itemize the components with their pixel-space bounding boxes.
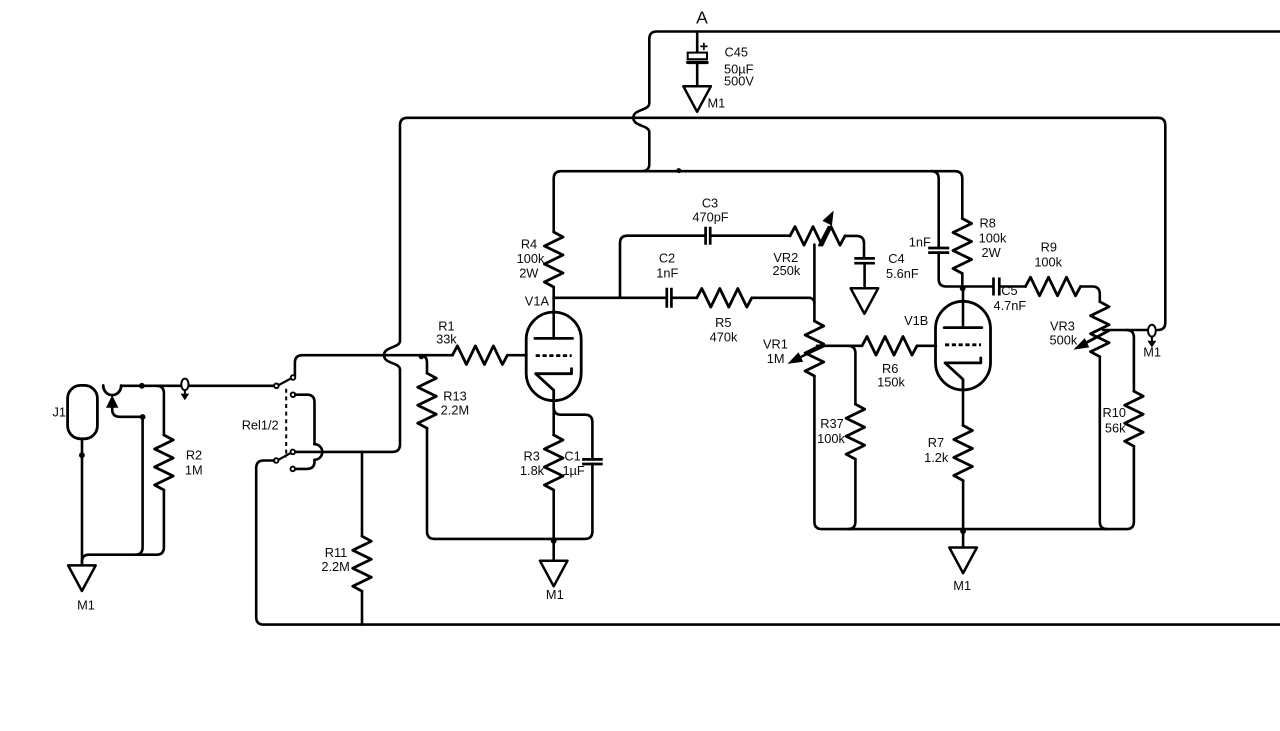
wire local ground bus xyxy=(82,555,156,563)
potentiometer VR3 body xyxy=(1091,302,1110,357)
relay contact pin bottom throw 2 xyxy=(291,467,296,472)
ground M1 under C45 xyxy=(683,86,711,112)
triode V1A grid (dashed) xyxy=(536,354,572,357)
ground M1 under R7 xyxy=(949,548,977,574)
wire V1B cathode to R7 xyxy=(962,390,965,426)
svg-text:R2: R2 xyxy=(186,447,202,462)
wire relay throw2 down xyxy=(295,395,314,445)
wire plate-supply rail (y=171.2) xyxy=(561,171,962,218)
capacitor C3 xyxy=(706,227,711,245)
wire R5 to VR2 wiper node xyxy=(752,298,815,303)
relay contact pin top throw 2 xyxy=(291,392,296,397)
resistor R3 xyxy=(544,435,563,490)
svg-text:R8: R8 xyxy=(980,215,996,230)
svg-text:33k: 33k xyxy=(436,332,457,347)
wire branch down to R37 xyxy=(848,346,855,404)
wire C4 to ground xyxy=(863,263,866,288)
wire relay bottom common to bottom rail xyxy=(256,461,1280,625)
wire VR1 bottom to ground wire xyxy=(814,376,1134,529)
wire drop to relay contact wire xyxy=(296,370,400,452)
junction on plate-supply rail xyxy=(676,168,681,173)
capacitor C45 bottom plate xyxy=(688,61,707,64)
svg-text:100k: 100k xyxy=(979,231,1007,246)
potentiometer VR3 wiper arrow xyxy=(1083,331,1109,345)
wire node A to C45 xyxy=(696,32,699,53)
svg-text:V1B: V1B xyxy=(904,313,928,328)
svg-text:R10: R10 xyxy=(1103,405,1126,420)
svg-text:M1: M1 xyxy=(953,578,971,593)
potentiometer VR2 body xyxy=(790,227,845,246)
svg-text:C2: C2 xyxy=(659,250,675,265)
resistor R2 xyxy=(155,435,174,490)
svg-text:250k: 250k xyxy=(773,263,801,278)
wire hop at relay crossing xyxy=(315,444,323,460)
capacitor C4 xyxy=(854,258,875,263)
wire VR2 to C4 xyxy=(845,236,864,257)
wire input tip to relay xyxy=(121,384,274,387)
wire rail node A (y=31.5) xyxy=(649,32,1280,104)
wire R13 to cathode ground wire xyxy=(427,428,435,539)
wire branch to 1nF cap xyxy=(931,171,939,247)
wire R2 to ground bus xyxy=(156,490,164,555)
svg-text:Rel1/2: Rel1/2 xyxy=(242,417,279,432)
ground M1 under J1 xyxy=(68,565,96,591)
junction V1B plate node xyxy=(960,286,966,292)
wire cathode to R3 xyxy=(552,400,555,435)
connector J1 body xyxy=(68,385,98,438)
relay contact pin top throw 1 xyxy=(291,375,296,380)
resistor R1 xyxy=(452,346,507,365)
relay contact pin bottom common xyxy=(274,458,279,463)
svg-text:V1A: V1A xyxy=(525,293,550,308)
triode V1B plate bar xyxy=(944,326,982,329)
wire switch contact down xyxy=(112,407,142,417)
resistor R10 xyxy=(1125,391,1144,446)
wire C5 to R9 xyxy=(999,285,1025,288)
svg-text:M1: M1 xyxy=(77,597,95,612)
wire VR3 wiper to M1 flag xyxy=(1103,329,1148,332)
triode V1A plate bar xyxy=(535,337,573,340)
wire R1 to V1A grid xyxy=(507,354,526,357)
wire C2 to R5 xyxy=(672,296,697,299)
resistor R11 xyxy=(353,536,372,591)
wire node A drop to plate-supply rail xyxy=(642,132,649,171)
triode V1B envelope xyxy=(936,301,991,390)
wire C45 to ground xyxy=(696,62,699,86)
svg-text:M1: M1 xyxy=(546,587,564,602)
svg-text:M1: M1 xyxy=(1143,344,1161,359)
resistor R37 xyxy=(846,404,865,459)
relay top armature xyxy=(279,379,291,386)
svg-text:150k: 150k xyxy=(877,374,905,389)
wire branch down to R2 xyxy=(156,386,164,435)
resistor R5 xyxy=(697,289,752,308)
junction R3 ground wire xyxy=(551,538,557,544)
wire R7 to ground wire xyxy=(962,481,965,530)
connector J1 switch arrow xyxy=(107,396,118,407)
svg-text:470pF: 470pF xyxy=(692,209,728,224)
svg-text:1.2k: 1.2k xyxy=(924,450,949,465)
wire R3 to ground node xyxy=(552,490,555,561)
svg-text:C3: C3 xyxy=(702,195,718,210)
svg-text:C5: C5 xyxy=(1001,283,1017,298)
resistor R9 xyxy=(1026,277,1081,296)
resistor R8 xyxy=(953,219,972,274)
net flag M1 oval at VR3 wiper xyxy=(1148,325,1156,337)
svg-text:C1: C1 xyxy=(564,448,580,463)
wire VR1 wiper to R6 xyxy=(817,344,862,347)
relay bottom armature xyxy=(278,453,290,460)
wire R37 to ground wire xyxy=(848,459,856,529)
wire rail corner down to R4 xyxy=(554,171,562,232)
svg-text:2W: 2W xyxy=(982,245,1002,260)
capacitor 1nF xyxy=(928,248,949,253)
wire stub to ground symbol xyxy=(962,529,965,547)
wire relay to R1 xyxy=(302,354,452,357)
capacitor C45 polarity + xyxy=(701,43,707,49)
junction at R13 xyxy=(419,354,424,359)
svg-text:2.2M: 2.2M xyxy=(441,403,469,418)
potentiometer VR2 wiper arrow xyxy=(820,227,829,245)
potentiometer VR1 body xyxy=(805,321,824,376)
svg-text:1nF: 1nF xyxy=(656,265,678,280)
ground M1 under V1A xyxy=(540,561,568,587)
relay Rel1/2 dashed link xyxy=(285,389,287,458)
svg-text:1M: 1M xyxy=(767,351,785,366)
wire R9 to VR3 xyxy=(1081,287,1100,302)
wire branch down to R13 xyxy=(420,355,428,373)
svg-text:470k: 470k xyxy=(710,329,738,344)
svg-text:56k: 56k xyxy=(1105,420,1126,435)
wire branch up to C3 xyxy=(620,236,705,298)
junction on input wire xyxy=(139,383,145,389)
wire plate node to C5 xyxy=(962,285,993,288)
svg-text:R11: R11 xyxy=(325,545,348,560)
wire R4 to V1A plate node xyxy=(552,287,555,298)
wire relay throw wire to R11 xyxy=(361,452,364,536)
svg-text:R4: R4 xyxy=(521,236,537,251)
wire plate node into V1B xyxy=(962,287,965,328)
svg-text:M1: M1 xyxy=(708,96,726,111)
potentiometer VR1 wiper arrow xyxy=(797,346,825,359)
triode V1B cathode xyxy=(945,358,981,390)
wire hop over R1 wire at (400,355) xyxy=(384,341,400,370)
svg-text:VR1: VR1 xyxy=(763,337,788,352)
svg-text:R13: R13 xyxy=(443,388,466,403)
junction on J1 sleeve wire xyxy=(79,452,85,458)
wire upper ground rail (y=117.8) xyxy=(400,118,1165,341)
wire R6 to V1B grid xyxy=(917,344,936,347)
svg-text:1M: 1M xyxy=(185,462,203,477)
svg-text:C45: C45 xyxy=(725,45,748,60)
capacitor C2 xyxy=(667,288,672,308)
svg-text:R9: R9 xyxy=(1041,240,1057,255)
connector J1 tip contact arc xyxy=(103,386,121,396)
svg-text:J1: J1 xyxy=(52,405,66,420)
wire to bottom throw2 xyxy=(295,460,314,469)
wire relay throw1 up to R1 wire xyxy=(295,355,303,375)
wire V1A plate node to C2 xyxy=(554,296,667,299)
wire hop over ground rail at (649,118) xyxy=(633,103,649,132)
wire switch to ground bus xyxy=(135,417,143,555)
svg-text:A: A xyxy=(696,8,708,28)
svg-text:R7: R7 xyxy=(928,435,944,450)
capacitor C45 top plate xyxy=(688,53,707,60)
svg-text:500V: 500V xyxy=(724,74,754,89)
triode V1A envelope xyxy=(526,312,581,401)
svg-text:R5: R5 xyxy=(715,315,731,330)
svg-text:5.6nF: 5.6nF xyxy=(886,266,919,281)
wire branch down to R10 xyxy=(1126,330,1134,391)
svg-text:1nF: 1nF xyxy=(909,235,931,250)
junction at R7 ground xyxy=(960,528,966,534)
svg-text:2W: 2W xyxy=(519,265,539,280)
triode V1B grid (dashed) xyxy=(945,343,981,346)
svg-text:R37: R37 xyxy=(820,416,843,431)
ground under C4 xyxy=(851,288,879,314)
svg-text:4.7nF: 4.7nF xyxy=(994,298,1027,313)
relay contact pin top common xyxy=(274,384,279,389)
wire 1nF to plate node xyxy=(939,253,963,287)
wire C1 bottom to cathode ground wire xyxy=(435,464,593,539)
svg-text:2.2M: 2.2M xyxy=(321,559,349,574)
svg-text:500k: 500k xyxy=(1050,333,1078,348)
wire C3 to VR2 xyxy=(710,234,790,237)
svg-text:1.8k: 1.8k xyxy=(520,463,545,478)
resistor R4 xyxy=(544,232,563,287)
svg-text:R3: R3 xyxy=(524,448,540,463)
wire R11 to bottom rail xyxy=(361,591,364,624)
capacitor C5 xyxy=(994,278,1000,296)
relay contact pin bottom throw 1 xyxy=(291,450,296,455)
resistor R7 xyxy=(954,426,973,481)
net flag oval on input wire xyxy=(181,379,188,391)
wire R8 to plate node xyxy=(961,274,964,287)
svg-text:100k: 100k xyxy=(1034,255,1062,270)
wire VR3 bottom to ground wire xyxy=(1100,357,1108,529)
svg-text:100k: 100k xyxy=(817,431,845,446)
svg-text:VR3: VR3 xyxy=(1050,319,1075,334)
triode V1A cathode xyxy=(536,369,572,401)
resistor R13 xyxy=(418,373,437,428)
resistor R6 xyxy=(862,337,917,356)
capacitor C1 xyxy=(582,459,603,464)
junction switch wire corner xyxy=(140,414,146,420)
wire branch to C1 xyxy=(554,407,593,459)
svg-text:C4: C4 xyxy=(888,251,904,266)
svg-text:1µF: 1µF xyxy=(562,463,584,478)
wire J1 sleeve to ground xyxy=(81,439,84,565)
wire VR2 wiper down to VR1 xyxy=(813,245,816,322)
wire V1A plate lead xyxy=(552,298,555,339)
svg-text:100k: 100k xyxy=(517,251,545,266)
